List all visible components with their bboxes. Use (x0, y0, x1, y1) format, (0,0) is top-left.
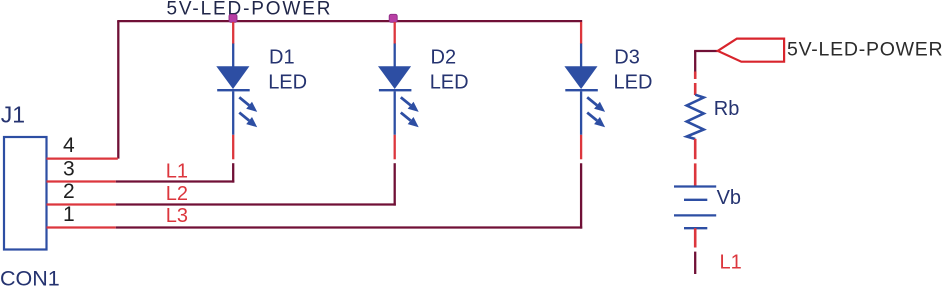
wire: D2 bottom pin (red) (394, 135, 396, 160)
wire: D3 anode stub (blue) (580, 44, 582, 67)
svg-text:5V-LED-POWER: 5V-LED-POWER (167, 0, 333, 19)
svg-text:2: 2 (63, 180, 75, 203)
label D1 (269, 46, 295, 68)
power flag 5V-LED-POWER (694, 39, 784, 62)
wire: D3 top pin (red) (580, 22, 582, 44)
svg-text:5V-LED-POWER: 5V-LED-POWER (787, 39, 943, 61)
wire: top power rail (117, 20, 582, 22)
label CON1 (0, 267, 60, 286)
wire: pin 4 lead (red) (47, 157, 118, 159)
net name L1 (right) (720, 251, 742, 273)
junction dot at D1 (229, 14, 237, 22)
svg-text:CON1: CON1 (0, 267, 60, 286)
wire: D1 cathode stub (blue) (232, 91, 234, 134)
svg-text:L3: L3 (166, 205, 188, 227)
svg-text:LED: LED (430, 72, 469, 94)
wire: battery top pin (red) (694, 163, 697, 186)
svg-text:L2: L2 (166, 183, 188, 205)
wire: net stub L1 (maroon) (694, 252, 696, 274)
svg-text:Vb: Vb (717, 187, 741, 209)
wire: D2 cathode stub (blue) (394, 91, 396, 134)
wire: D3 drop to net L3 (maroon) (580, 163, 582, 228)
svg-text:J1: J1 (1, 101, 25, 127)
svg-text:4: 4 (63, 134, 75, 157)
wire: D2 anode stub (blue) (394, 44, 396, 67)
LED D3 (564, 66, 605, 127)
svg-text:D3: D3 (614, 46, 640, 68)
wire: red stub above resistor (694, 72, 697, 80)
wire: D1 bottom pin (red) (232, 135, 234, 160)
pin number 3 (63, 158, 75, 181)
battery Vb (674, 187, 716, 229)
label 5V-LED-POWER (flag) (787, 39, 943, 61)
resistor Rb (687, 95, 704, 139)
label J1 (1, 101, 25, 127)
svg-text:LED: LED (614, 72, 653, 94)
label LED (D1) (268, 72, 307, 94)
wire: pin 2 lead (red) (47, 203, 116, 205)
label LED (D3) (614, 72, 653, 94)
label D2 (431, 46, 457, 68)
wire: resistor bottom pin (red) (694, 139, 697, 159)
wire: D3 bottom pin (red) (580, 135, 582, 160)
junction dot at D2 (389, 14, 397, 22)
wire: net L1 (maroon) (116, 180, 235, 182)
wire: D3 cathode stub (blue) (580, 91, 582, 134)
label D3 (614, 46, 640, 68)
net name L2 (166, 183, 188, 205)
wire: D1 top pin (red) (232, 22, 234, 44)
net name L1 (166, 160, 188, 182)
svg-text:D1: D1 (269, 46, 295, 68)
wire: D1 drop to net L1 (maroon) (232, 163, 234, 182)
pin number 1 (63, 203, 75, 226)
svg-text:3: 3 (63, 158, 75, 181)
svg-text:L1: L1 (720, 251, 742, 273)
pin number 4 (63, 134, 75, 157)
wire: left riser from pin 4 to rail (117, 21, 119, 159)
wire: pin 3 lead (red) (47, 180, 116, 182)
label Rb (714, 98, 740, 120)
wire: net L2 (maroon) (116, 203, 396, 205)
LED D1 (216, 66, 257, 127)
label Vb (717, 187, 741, 209)
wire: D2 drop to net L2 (maroon) (394, 163, 396, 205)
svg-text:L1: L1 (166, 160, 188, 182)
net label 5V-LED-POWER (top rail) (167, 0, 333, 19)
wire: pin 1 lead (red) (47, 226, 116, 228)
wire: D2 top pin (red) (394, 22, 396, 44)
wire: resistor top pin (red) (694, 83, 697, 95)
connector J1 (4, 137, 47, 250)
svg-text:Rb: Rb (714, 98, 740, 120)
wire: D1 anode stub (blue) (232, 44, 234, 67)
svg-text:1: 1 (63, 203, 75, 226)
LED D2 (378, 66, 419, 127)
wire: battery bottom pin (red) (694, 228, 697, 247)
wire: net L3 (maroon) (116, 226, 582, 228)
pin number 2 (63, 180, 75, 203)
net name L3 (166, 205, 188, 227)
svg-text:D2: D2 (431, 46, 457, 68)
wire: flag to resistor (maroon) (694, 51, 696, 72)
label LED (D2) (430, 72, 469, 94)
svg-text:LED: LED (268, 72, 307, 94)
